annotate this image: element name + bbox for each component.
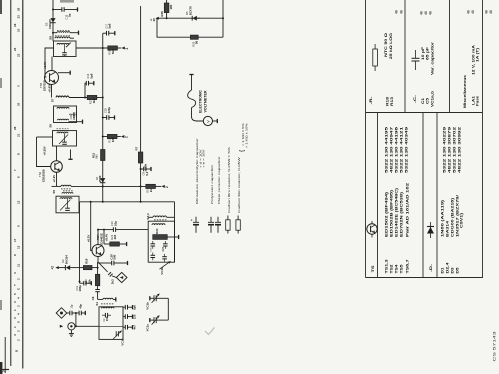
svg-text:13: 13 — [16, 245, 20, 249]
svg-text:C6: C6 — [91, 296, 95, 300]
svg-text:ED1402E (BC548C): ED1402E (BC548C) — [395, 188, 399, 237]
svg-text:CDG00: CDG00 — [48, 19, 52, 29]
svg-text:ED702N: ED702N — [42, 80, 46, 91]
svg-text:> 1 MΩ ± 10%: > 1 MΩ ± 10% — [244, 123, 248, 148]
svg-text:-R-: -R- — [369, 97, 373, 105]
svg-text:5322 130 44196: 5322 130 44196 — [395, 127, 399, 173]
svg-text:TS: TS — [370, 265, 375, 273]
svg-text:Fuse: Fuse — [475, 96, 479, 106]
svg-text:6p8: 6p8 — [132, 305, 136, 310]
svg-text:C1: C1 — [421, 98, 425, 104]
svg-text:ED702N (BC538): ED702N (BC538) — [400, 192, 404, 237]
svg-text:VC1a: VC1a — [121, 338, 125, 346]
svg-text:5p: 5p — [67, 13, 71, 17]
svg-text:5322 130 40349: 5322 130 40349 — [405, 127, 409, 173]
svg-text:D3: D3 — [451, 267, 455, 273]
svg-text:CDG00 (BA216): CDG00 (BA216) — [451, 198, 455, 237]
svg-text:48: 48 — [484, 10, 488, 14]
svg-text:BA314: BA314 — [446, 221, 450, 237]
svg-text:5p6: 5p6 — [89, 73, 93, 78]
svg-text:48: 48 — [424, 11, 428, 15]
svg-text:BA314: BA314 — [64, 255, 68, 264]
svg-text:3k3: 3k3 — [111, 279, 115, 284]
svg-text:R18: R18 — [386, 97, 390, 106]
svg-text:180: 180 — [169, 4, 173, 9]
svg-text:Miscellaneous: Miscellaneous — [463, 75, 467, 108]
svg-text:Carbon film resistor, 0.05W: Carbon film resistor, 0.05W — [237, 157, 241, 213]
svg-text:+ e = 16V: + e = 16V — [202, 150, 206, 169]
svg-text:TS6,7: TS6,7 — [405, 259, 409, 273]
svg-text:100p: 100p — [78, 285, 82, 292]
svg-text:48: 48 — [467, 10, 471, 14]
svg-text:11: 11 — [16, 263, 20, 267]
svg-text:VC1a,b: VC1a,b — [430, 91, 434, 107]
svg-text:48: 48 — [489, 10, 493, 14]
svg-text:VC1a: VC1a — [146, 324, 150, 332]
svg-text:S3,4: S3,4 — [146, 213, 150, 220]
svg-text:20: 20 — [16, 102, 20, 106]
svg-text:D5: D5 — [456, 267, 460, 273]
svg-text:D1: D1 — [441, 267, 445, 273]
svg-text:VOLTMETER: VOLTMETER — [204, 90, 208, 112]
svg-text:ED1502B: ED1502B — [42, 169, 46, 182]
svg-text:NTC 50 Ω: NTC 50 Ω — [384, 32, 388, 57]
svg-text:CS 57143: CS 57143 — [492, 332, 497, 362]
svg-text:500: 500 — [113, 254, 117, 259]
svg-text:VC1b: VC1b — [146, 302, 150, 310]
svg-text:23: 23 — [16, 15, 20, 19]
svg-text:S8: S8 — [48, 36, 52, 40]
svg-text:R19: R19 — [85, 258, 89, 264]
svg-text:Miniature electrolytic capacit: Miniature electrolytic capacitor — [195, 138, 199, 204]
svg-text:-D-: -D- — [429, 263, 433, 272]
svg-text:+8.4V: +8.4V — [105, 234, 109, 242]
svg-text:R13: R13 — [390, 97, 394, 106]
svg-text:220: 220 — [132, 314, 136, 319]
svg-text:10μ: 10μ — [113, 221, 117, 226]
svg-text:R11: R11 — [91, 153, 95, 159]
svg-text:21: 21 — [16, 133, 20, 137]
svg-text:48: 48 — [428, 11, 432, 15]
svg-text:TS2: TS2 — [390, 264, 394, 273]
svg-text:24: 24 — [13, 47, 17, 51]
svg-text:+8.2V: +8.2V — [87, 235, 91, 243]
svg-text:48: 48 — [420, 11, 424, 15]
svg-text:S7: S7 — [51, 98, 55, 102]
svg-text:Var. capacitor: Var. capacitor — [430, 41, 434, 75]
svg-text:ELECTRONIC: ELECTRONIC — [199, 90, 203, 113]
svg-text:VC1b: VC1b — [160, 267, 164, 275]
svg-text:12: 12 — [16, 200, 20, 204]
svg-text:R26: R26 — [160, 11, 164, 17]
svg-text:5322 130 40229: 5322 130 40229 — [443, 127, 447, 173]
svg-text:5322 130 44121: 5322 130 44121 — [400, 127, 404, 173]
svg-text:100: 100 — [105, 316, 109, 321]
svg-text:10p: 10p — [71, 304, 74, 309]
svg-text:10: 10 — [16, 28, 20, 32]
svg-text:56: 56 — [195, 40, 199, 44]
svg-text:-C-: -C- — [413, 95, 417, 103]
svg-text:+2.2V: +2.2V — [52, 175, 56, 183]
svg-text:Polyester capacitor: Polyester capacitor — [210, 165, 214, 204]
svg-text:1N60 (AA119): 1N60 (AA119) — [441, 200, 445, 237]
svg-text:TS4: TS4 — [395, 264, 399, 273]
svg-text:25 kΩ LOG: 25 kΩ LOG — [389, 32, 393, 59]
svg-text:48: 48 — [395, 10, 399, 14]
svg-text:0,1: 0,1 — [145, 171, 149, 175]
svg-text:10 pF: 10 pF — [421, 47, 425, 60]
svg-text:+2: +2 — [51, 266, 55, 270]
svg-text:1A (T): 1A (T) — [475, 48, 479, 62]
svg-text:T: T — [13, 284, 17, 286]
svg-text:26: 26 — [16, 7, 20, 11]
svg-text:TS5: TS5 — [400, 264, 404, 273]
svg-text:5k6: 5k6 — [111, 49, 115, 54]
svg-text:5322 130 44195: 5322 130 44195 — [385, 127, 389, 173]
svg-text:48: 48 — [400, 10, 404, 14]
svg-text:4822 130 30992: 4822 130 30992 — [458, 127, 462, 173]
svg-text:S5: S5 — [52, 190, 56, 194]
svg-text:1k: 1k — [149, 188, 153, 192]
svg-text:+: + — [190, 219, 194, 221]
svg-text:ED1402E: ED1402E — [99, 233, 103, 245]
svg-text:65 pF: 65 pF — [425, 47, 429, 60]
svg-text:40p: 40p — [78, 304, 82, 309]
svg-text:S1: S1 — [95, 302, 99, 306]
svg-text:C27: C27 — [162, 246, 165, 251]
svg-text:BZX79: BZX79 — [188, 6, 192, 15]
svg-text:+0.55V: +0.55V — [43, 146, 47, 155]
svg-text:24: 24 — [1, 369, 5, 372]
svg-text:+0.65V: +0.65V — [48, 83, 52, 92]
svg-text:4822 130 40947: 4822 130 40947 — [390, 127, 394, 173]
svg-text:18: 18 — [13, 23, 17, 27]
svg-text:48: 48 — [471, 10, 475, 14]
svg-text:22: 22 — [16, 53, 20, 57]
svg-text:5322 130 30702: 5322 130 30702 — [453, 127, 457, 173]
svg-text:17: 17 — [13, 238, 17, 242]
svg-text:28: 28 — [13, 126, 17, 130]
svg-text:220p: 220p — [107, 107, 111, 114]
svg-text:R24: R24 — [155, 228, 159, 233]
svg-text:1k5: 1k5 — [113, 234, 117, 239]
svg-text:R7: R7 — [135, 146, 139, 150]
svg-text:5p6: 5p6 — [108, 23, 112, 28]
svg-text:C5: C5 — [425, 98, 429, 104]
svg-text:1N60: 1N60 — [98, 175, 102, 182]
svg-text:10k: 10k — [111, 137, 115, 142]
svg-text:4822 130 30879: 4822 130 30879 — [448, 127, 452, 173]
svg-text:S6: S6 — [48, 124, 52, 128]
svg-text:100p: 100p — [72, 113, 76, 120]
svg-text:10: 10 — [152, 18, 156, 22]
svg-text:3k3: 3k3 — [92, 98, 96, 103]
svg-text:+1.4V: +1.4V — [43, 62, 47, 70]
svg-text:2: 2 — [125, 48, 129, 50]
svg-text:ED1502B (BF495): ED1502B (BF495) — [390, 190, 394, 237]
svg-text:Carbon film resistor, 0.25W ±: Carbon film resistor, 0.25W ± 5% — [227, 147, 231, 213]
svg-text:Pair AD 161/AD 162: Pair AD 161/AD 162 — [405, 183, 409, 237]
svg-text:ED1502 (BF494): ED1502 (BF494) — [385, 192, 389, 237]
svg-text:D2,4: D2,4 — [446, 262, 450, 273]
svg-text:2: 2 — [124, 136, 128, 138]
svg-text:TS1,3: TS1,3 — [385, 259, 389, 273]
svg-text:4n7: 4n7 — [132, 325, 136, 330]
svg-text:2: 2 — [165, 186, 169, 188]
svg-text:C9V1): C9V1) — [460, 213, 464, 228]
svg-text:Plate ceramic capacitor: Plate ceramic capacitor — [217, 157, 221, 204]
